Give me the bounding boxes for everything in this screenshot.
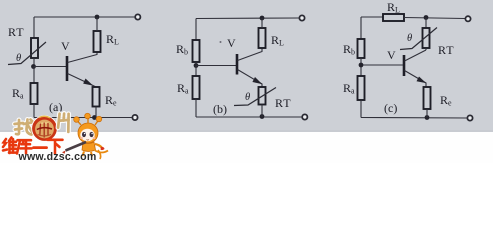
transistor V collector lead (b) — [238, 48, 263, 61]
logo character pian — [58, 113, 70, 132]
wire: top rail (a) — [34, 16, 135, 18]
wire: Ra to bottom rail (c) — [360, 100, 362, 118]
terminal: top output (a) — [135, 14, 140, 19]
watermark text weiku yixia — [3, 138, 63, 154]
resistor Rb body (c) — [358, 39, 365, 58]
svg-text:www.dzsc.com: www.dzsc.com — [18, 151, 97, 163]
svg-text:V: V — [227, 36, 236, 50]
transistor V emitter lead (a) — [68, 74, 97, 88]
label RT (b) — [275, 96, 292, 110]
label RT (a) — [8, 25, 25, 39]
node: base junction (c) — [359, 63, 364, 68]
svg-text:RT: RT — [8, 25, 25, 39]
white bottom strip — [0, 132, 493, 163]
wire: rail to RL (a) — [96, 17, 98, 31]
thermistor RT body (c) — [423, 28, 430, 48]
svg-text:θ: θ — [16, 53, 21, 64]
wire: Rb to base node (c) — [360, 58, 362, 76]
label (a) — [49, 100, 62, 114]
logo seal circle with xin — [32, 116, 57, 141]
label RL (a) — [106, 32, 119, 47]
resistor Re body (c) — [424, 87, 431, 109]
scan background panel — [0, 0, 493, 133]
mascot antennae — [74, 113, 102, 125]
label (b) — [213, 102, 227, 116]
node: bottom junction (a) — [92, 115, 97, 120]
wire: top rail (b) — [196, 17, 299, 20]
node: top junction (b) — [260, 16, 265, 21]
node: base junction (a) — [31, 64, 36, 69]
transistor V base bar (a) — [66, 56, 69, 81]
mascot pen — [62, 142, 86, 154]
wire: junction to RT (c) — [425, 18, 427, 29]
label Ra (b) — [177, 81, 189, 96]
svg-text:V: V — [61, 39, 70, 53]
wire: left drop to Rb (b) — [195, 19, 197, 41]
terminal: top output (b) — [299, 15, 304, 20]
resistor Ra body (a) — [31, 83, 38, 104]
label V (c) — [387, 48, 396, 62]
watermark url — [18, 151, 97, 163]
node: top junction (c) — [424, 15, 429, 20]
label theta (a) — [16, 53, 21, 64]
terminal: top output (c) — [465, 16, 470, 21]
wire: Ra to bottom rail (a) — [33, 104, 35, 118]
thermistor RT body (b) — [259, 87, 266, 105]
transistor V base bar (b) — [236, 54, 239, 75]
wire: base lead (b) — [196, 65, 236, 67]
wire: rail to RL (b) — [261, 18, 263, 28]
transistor V emitter lead (c) — [405, 71, 427, 88]
svg-text:V: V — [387, 48, 396, 62]
resistor RL body horizontal (c) — [383, 14, 404, 21]
resistor Rb body (b) — [193, 40, 200, 62]
node: top junction (a) — [95, 15, 100, 20]
thermistor RT slash (a) — [8, 42, 46, 65]
wire: bottom rail (c) — [361, 117, 467, 120]
thermistor RT slash (c) — [400, 28, 437, 50]
terminal: bottom output (c) — [467, 115, 472, 120]
mascot head — [78, 123, 98, 143]
resistor RL body (b) — [259, 28, 266, 48]
label RL (b) — [271, 33, 284, 48]
wire: node to Ra (b) — [195, 66, 197, 77]
label Re (a) — [105, 93, 117, 108]
label V (b) — [227, 36, 236, 50]
wire: base lead (c) — [361, 64, 403, 66]
logo character zhao — [15, 120, 34, 135]
wire: Re to bottom rail (a) — [95, 107, 97, 118]
mascot body — [82, 142, 108, 159]
transistor V collector lead (c) — [405, 50, 427, 61]
svg-text:θ: θ — [245, 92, 250, 103]
label (c) — [384, 101, 397, 115]
label RL (c) — [387, 0, 400, 15]
wire: Re to bottom rail (c) — [426, 109, 428, 118]
label Ra (c) — [343, 81, 355, 96]
wire: top rail right segment (c) — [404, 18, 465, 19]
wire: left drop to Rb (c) — [360, 17, 362, 39]
transistor V collector lead (a) — [68, 52, 98, 63]
wire: left drop to RT (a) — [33, 17, 35, 38]
thermistor RT body (a) — [31, 38, 38, 58]
node: bottom junction (b) — [260, 114, 265, 119]
resistor Ra body (b) — [193, 76, 200, 99]
resistor RL body (a) — [94, 31, 101, 52]
wire: bottom rail (b) — [196, 116, 302, 118]
node: bottom junction (c) — [425, 115, 430, 120]
svg-text:RT: RT — [438, 43, 455, 57]
resistor Re body (a) — [93, 87, 100, 107]
wire: Rb to base node (b) — [195, 62, 197, 66]
wire: node to Ra (a) — [33, 67, 35, 84]
svg-text:(b): (b) — [213, 102, 227, 116]
label theta (c) — [407, 33, 412, 44]
thermistor RT slash (b) — [234, 88, 276, 106]
terminal: bottom output (b) — [302, 114, 307, 119]
label V (a) — [61, 39, 70, 53]
transistor V base bar (c) — [403, 55, 406, 76]
svg-text:RT: RT — [275, 96, 292, 110]
mascot face — [80, 129, 96, 141]
svg-text:(c): (c) — [384, 101, 397, 115]
label Rb (b) — [176, 42, 188, 57]
label RT (c) — [438, 43, 455, 57]
label Ra (a) — [12, 86, 24, 101]
svg-text:θ: θ — [407, 33, 412, 44]
node: base junction (b) — [194, 63, 199, 68]
terminal: bottom output (a) — [132, 115, 137, 120]
wire: RT to base node (a) — [33, 58, 35, 67]
wire: Ra to bottom rail (b) — [195, 99, 197, 117]
resistor Ra body (c) — [358, 76, 365, 100]
speck near V (b) — [220, 41, 222, 43]
wire: base lead (a) — [34, 66, 66, 68]
label Re (c) — [440, 93, 452, 108]
wire: RT to bottom rail (b) — [261, 105, 263, 118]
wire: top rail left segment (c) — [361, 16, 383, 18]
label Rb (c) — [343, 42, 355, 57]
label theta (b) — [245, 92, 250, 103]
wire: bottom rail (a) — [34, 117, 132, 119]
wire: RT to collector (c) — [425, 48, 427, 50]
transistor V emitter lead (b) — [238, 70, 263, 88]
